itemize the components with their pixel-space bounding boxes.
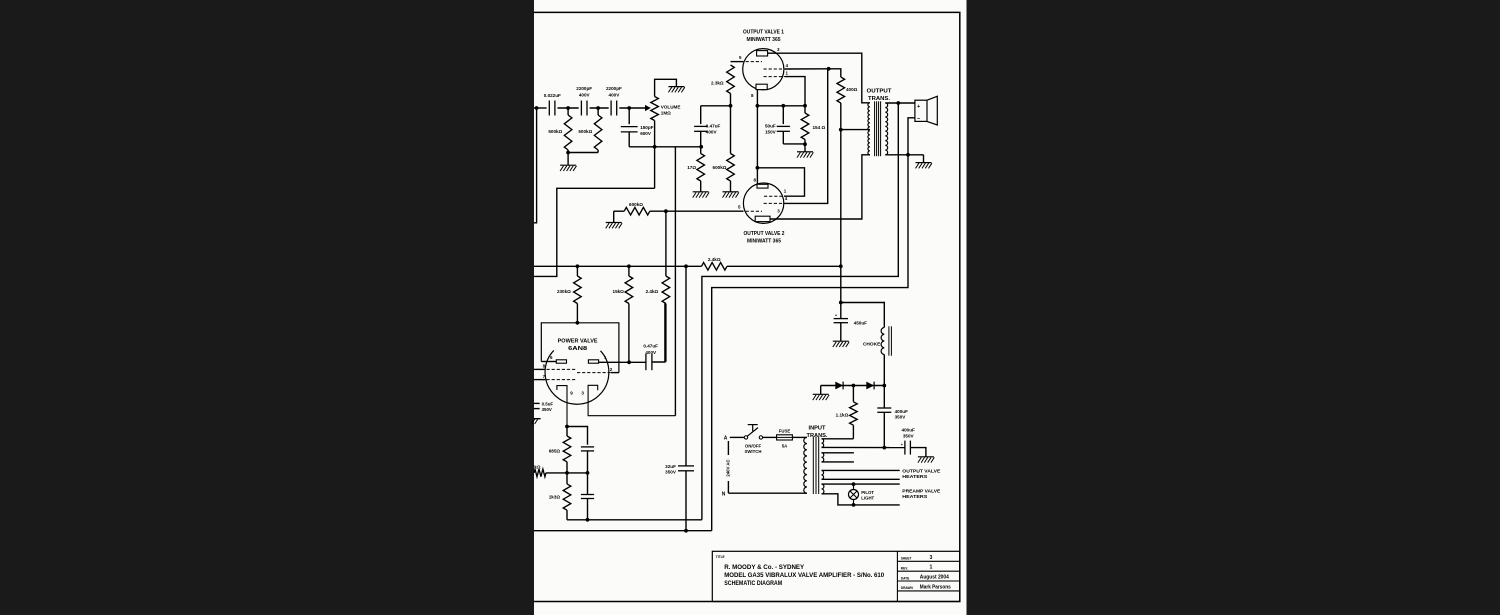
svg-text:INPUT: INPUT [809,425,827,431]
ground speaker return [916,162,932,164]
diode D2 [866,382,874,390]
wire ground drop right of T2 [923,155,925,163]
svg-text:CHOKE: CHOKE [863,341,881,347]
wire V2 pin8 to pin1 loop [757,168,804,196]
bus wire left segment y266 [534,265,702,267]
wire 400uF lower to ground [910,448,926,457]
svg-text:50uF: 50uF [765,124,776,129]
node pilot bottom [852,503,856,507]
tube V1 cathode electrode pin8 [756,84,767,89]
svg-text:150V: 150V [765,130,777,135]
svg-text:2.3kΩ: 2.3kΩ [711,80,724,85]
node bus to B+ vertical [839,264,843,268]
svg-text:400uF: 400uF [895,409,908,414]
wire 50uF bottom to 154 bottom [783,143,805,145]
tube V3 envelope arc [545,350,609,404]
node screen to 400ohm [827,67,831,71]
svg-text:600kΩ: 600kΩ [713,165,727,170]
wire bottom distribution y531 to page edge [534,530,712,532]
svg-text:1k3Ω: 1k3Ω [549,495,561,500]
wire B+ to choke [841,303,885,328]
svg-text:LIGHT: LIGHT [861,495,874,500]
rectifier rail y385 [821,385,885,387]
drawing border frame [534,12,960,601]
node 50uF top [781,104,785,108]
inductor CHOKE winding [881,328,884,355]
tube V3 cathode bracket pin3 [588,385,675,415]
svg-text:6AN8: 6AN8 [568,346,588,352]
svg-text:DRAWN: DRAWN [901,586,914,590]
switch SW1 on/off contacts [744,436,747,439]
svg-text:kΩ: kΩ [534,464,541,469]
resistor 685 Ohm [566,427,568,437]
capacitor 2200pF 400V second [610,101,612,116]
input signal wire from page edge [534,107,547,109]
capacitor 0.5uF 350V cut at edge [534,402,540,404]
wire preamp heater bottom lead [822,494,900,505]
resistor feedback from page edge [534,469,546,477]
wire 600k left to ground [613,211,615,222]
node resistor-bottoms [566,151,570,155]
diode D1 [835,382,843,390]
resistor 500kOhm second [597,108,599,115]
svg-text:ON/OFF: ON/OFF [745,443,762,448]
node bias at 0.47uF top [699,145,703,149]
wire switch to fuse [763,436,777,438]
ground cut at page edge [534,418,541,420]
capacitor cathode bypass lower [587,473,589,495]
node pilot top [852,482,856,486]
tube V3 right electrode pin1 [588,360,598,363]
svg-text:1.1kΩ: 1.1kΩ [836,413,849,418]
svg-text:OUTPUT VALVE 2: OUTPUT VALVE 2 [744,231,785,237]
resistor 17 Ohm [700,147,702,154]
wire V2 pin4 up to V1 screen node [784,69,828,204]
tube V2 bottom plate electrode pin3 [755,216,770,221]
tube V3 left electrode pin6 [556,360,566,363]
transformer T1 HV secondary winding [822,439,824,448]
svg-text:2200pF: 2200pF [576,86,592,91]
svg-text:1: 1 [930,565,933,571]
svg-text:MINIWATT 365: MINIWATT 365 [747,239,782,245]
wire V1 pin1 to 154ohm [785,77,805,106]
tube V3 cathode bracket pin9 [557,386,567,427]
ground under 154ohm [797,151,813,153]
resistor 400 Ohm screen feed [829,69,841,77]
resistor 500kOhm first [567,108,569,115]
wire bias line horizontal y147 [629,146,701,148]
svg-text:230kΩ: 230kΩ [557,289,571,294]
svg-text:1MΩ: 1MΩ [661,111,671,116]
svg-text:350V: 350V [903,433,915,438]
tube V2 grid dash pin5 [746,210,762,212]
transformer T2 primary winding [868,103,870,155]
svg-text:TITLE: TITLE [716,555,725,559]
ground under 500k resistors [560,164,576,166]
tube V1 OUTPUT VALVE 1 MINIWATT 365 envelope [743,49,784,90]
svg-text:August 2004: August 2004 [920,575,949,581]
switch SW1 lever [747,428,758,437]
node 15k bottom [627,360,631,364]
capacitor 0.47uF 400V screen [645,354,647,370]
svg-text:TRANS.: TRANS. [807,433,829,439]
node 2.3k bottom [729,104,733,108]
wire pot bottom west jog [534,188,655,276]
svg-text:500kΩ: 500kΩ [548,129,562,134]
svg-text:FUSE: FUSE [779,429,791,434]
potentiometer VOLUME 1MOhm [651,97,659,121]
wire 0.47uF top to 2.3k bottom [701,105,731,107]
svg-text:2.4kΩ: 2.4kΩ [708,257,721,262]
resistor 2.4kOhm bus dropper [702,263,728,271]
capacitor 400uF 350V upper [883,386,885,409]
ground under 600k [723,191,739,193]
ground rectifier input [813,393,829,395]
wire T2 secondary bottom to ground [885,154,923,156]
svg-text:400V: 400V [579,92,591,97]
node bypass lower bottom [586,518,590,522]
node pot bottom on bias line [653,145,657,149]
transformer T1 preamp heater winding [822,484,824,494]
svg-text:HEATERS: HEATERS [902,474,927,479]
svg-text:15kΩ: 15kΩ [613,289,625,294]
wire feedback line 1 speaker plus to cathode rail [702,103,898,520]
svg-text:HEATERS: HEATERS [902,494,927,499]
svg-text:685Ω: 685Ω [549,449,561,454]
node 230k bottom on box [576,321,580,325]
capacitor 0.47uF 400V coupling [700,106,702,124]
wire cap2 to node2 [590,107,609,109]
wire N to transformer primary bottom [728,492,807,494]
wiper arrowhead [645,105,651,111]
transformer T1 rectifier winding [822,453,824,462]
svg-text:DATE: DATE [901,576,909,580]
node 685 bottom [565,471,569,475]
svg-text:Mark Parsons: Mark Parsons [920,585,951,591]
resistor 600kOhm grid leak V1 [730,106,732,154]
tube V3 grid dash pin2 [577,372,611,374]
node n1 [566,106,570,110]
resistor 1k3 Ohm [566,473,568,484]
capacitor cathode bypass upper [581,446,594,448]
wire preamp heater top lead [822,483,900,485]
svg-text:N: N [722,492,726,498]
svg-text:OUTPUT: OUTPUT [867,88,893,94]
wire input drop to lower-left exit [534,108,537,223]
wire mains A-N lower [727,481,729,493]
capacitor 32uF 350V inline [685,266,687,466]
wire pot bottom down [654,121,656,189]
wire speaker minus lead [908,118,915,155]
node V2 grid junction [664,209,668,213]
wire rectifier winding top lead [822,452,854,454]
schematic page background [534,0,967,615]
svg-text:SHEET: SHEET [901,557,912,561]
svg-text:400V: 400V [609,92,621,97]
wire joining 500k resistor bottoms [568,152,598,154]
ground above volume pot [668,86,684,88]
wire cathode bus y106 [757,105,805,107]
svg-text:350V: 350V [542,407,552,412]
wire output heater top lead [822,469,900,471]
svg-text:2200pF: 2200pF [606,86,622,91]
switch SW1 handle [752,425,754,432]
node V3 pin9 cathode junction [565,425,569,429]
svg-text:154 Ω: 154 Ω [813,125,826,130]
svg-text:MODEL GA35 VIBRALUX VALVE AMPL: MODEL GA35 VIBRALUX VALVE AMPLIFIER - S/… [724,572,884,579]
svg-text:TRANS.: TRANS. [868,96,891,102]
svg-text:0.47uF: 0.47uF [643,344,658,349]
wire cap3 to volume pot wiper [619,107,645,109]
tube V1 grid dash pin1 [764,76,786,78]
node 230k top [576,264,580,268]
resistor 154 Ohm [804,106,806,113]
wire to ground stub [567,153,569,166]
node V2 pin8 tie [756,166,760,170]
fuse F1 5A body [777,435,793,440]
wire to ground under 154 [804,144,806,152]
title block frame [712,551,960,601]
svg-text:600V: 600V [640,131,652,136]
wire V1 pin5 grid stopper [731,61,744,63]
svg-text:0.47uF: 0.47uF [706,124,721,129]
svg-text:400uF: 400uF [902,428,915,433]
svg-text:400V: 400V [706,130,718,135]
node speaker plus feedback tap [896,101,900,105]
capacitor 0.022uF [548,101,550,116]
node 32uF bottom tie [684,529,688,533]
svg-text:17Ω: 17Ω [687,165,696,170]
node bypass upper bottom [586,471,590,475]
wire 0.47uF to 2.4k bottom [652,304,665,363]
wire cathode junction to bypass cap [567,427,588,445]
wire V1 pin4 screen [785,68,829,70]
ground under 450uF [833,340,849,342]
node n3 150pF tap [627,106,631,110]
svg-text:350V: 350V [665,469,677,474]
tube V2 OUTPUT VALVE 2 MINIWATT 365 envelope [743,183,783,223]
wire fuse to input transformer [792,436,807,438]
wire choke to rectifier node [883,355,885,386]
ground under 17ohm [693,191,709,193]
resistor 1.1kOhm [852,386,854,402]
resistor 2.4kOhm vertical [665,211,667,276]
wire mid cathode junction y473 [546,472,588,474]
wire feedback line 2 speaker minus to B+ rail [712,155,908,531]
svg-text:VOLUME: VOLUME [661,104,681,109]
wire A to switch [730,436,745,438]
node B+ filter junction [839,301,843,305]
tube V2 grid dash pin1 [764,195,784,197]
transformer T2 secondary winding [885,103,887,155]
tube V1 plate cap electrode pin3 [757,51,768,56]
svg-text:400V: 400V [645,350,657,355]
tube V1 grid dash pin4 [764,68,786,70]
wire HV secondary top to 1.1k [822,438,854,440]
svg-text:OUTPUT VALVE 1: OUTPUT VALVE 1 [743,30,785,36]
resistor 2.3kOhm [727,65,735,94]
ground under 600k V2 [606,222,622,224]
wire pin2 to box right side [611,372,619,374]
wire bias drop x675 to 6AN8 cathode [674,147,676,416]
svg-text:500kΩ: 500kΩ [578,129,592,134]
node n2 [596,106,600,110]
wire pin1 electrode to 15k node [599,361,646,363]
svg-text:POWER VALVE: POWER VALVE [558,338,598,344]
wire cathode bottom rail y520 [567,519,702,521]
svg-text:A: A [724,436,728,442]
capacitor 400uF 350V lower [904,441,906,455]
wire T2 primary centre tap [841,129,870,131]
wire T2 secondary top to speaker plus [885,102,915,104]
node 154ohm bottom [803,142,807,146]
svg-text:SWITCH: SWITCH [745,449,762,454]
tube V2 top electrode pin8 [757,184,768,188]
choke core [888,326,890,355]
ground under 400uF lower [918,456,934,458]
svg-text:3: 3 [930,555,933,561]
svg-text:R. MOODY & Co. - SYDNEY: R. MOODY & Co. - SYDNEY [724,564,805,571]
svg-text:OUTPUT VALVE: OUTPUT VALVE [902,468,940,473]
resistor 15kOhm [628,266,630,276]
wire V1 plate to output transformer [768,53,870,103]
wire V2 plate to output transformer bottom [770,155,870,219]
svg-text:350V: 350V [895,414,907,419]
tube V1 grid dash pin5 [746,61,762,63]
speaker LS1 horn [927,96,937,125]
tube V3 grid dash pin8 [547,368,578,370]
transformer T1 core [812,437,814,494]
transformer T1 output heater winding [822,470,824,479]
node 15k top [627,264,631,268]
wire rectifier left to ground [820,386,822,395]
capacitor 2200pF 400V first [580,101,582,116]
resistor 600kOhm grid leak V2 horizontal [614,210,625,212]
capacitor 50uF 150V [782,106,784,124]
node V1 cathode [756,104,760,108]
svg-text:150pF: 150pF [640,125,653,130]
wire box to pin6 electrode [541,361,556,363]
resistor 230kOhm [576,266,578,276]
wire V1 cathode down to V2 pin8 [756,90,758,185]
svg-text:240V AC: 240V AC [726,459,731,476]
svg-text:PREAMP VALVE: PREAMP VALVE [902,489,940,494]
node input junction [535,106,539,110]
wire HV secondary bottom to 400uF [822,446,905,448]
wire pot top to ground [655,79,677,96]
tube V2 grid dash pin4 [764,202,784,204]
wire rectifier winding bottom lead [822,461,854,463]
tube V3 grid dash pin7 [547,379,578,381]
node rectifier output [882,384,886,388]
node 32uF drop [684,264,688,268]
capacitor 450uF reservoir [840,303,842,319]
wire V3 pin7 from page edge [534,379,545,381]
svg-text:SCHEMATIC DIAGRAM: SCHEMATIC DIAGRAM [724,580,782,587]
wire cap1 to node1 [558,107,579,109]
svg-text:400Ω: 400Ω [846,87,858,92]
tube V3 POWER VALVE 6AN8 box [541,323,619,373]
svg-text:MINIWATT 365: MINIWATT 365 [747,37,782,43]
bus wire right segment y266 [727,265,841,267]
svg-text:32uF: 32uF [665,464,676,469]
svg-text:5A: 5A [782,443,788,448]
node centre tap [839,128,843,132]
svg-text:2.4kΩ: 2.4kΩ [646,289,659,294]
wire V2 grid to pin5 [666,210,744,212]
svg-text:450uF: 450uF [854,320,867,325]
svg-text:600kΩ: 600kΩ [629,202,643,207]
node speaker minus tie [906,153,910,157]
transformer T1 primary winding [804,437,807,493]
node HV winding to caps [882,446,886,450]
node 154ohm top [803,104,807,108]
svg-text:0.022uF: 0.022uF [544,93,561,98]
capacitor 150pF 600V [628,108,630,124]
wire mains A-N upper [727,441,729,455]
svg-text:REV.: REV. [901,567,908,571]
node doubler mid [852,384,856,388]
svg-text:PILOT: PILOT [861,490,874,495]
lamp PILOT LIGHT [853,484,855,489]
transformer T2 core [874,101,876,156]
wire output heater bottom lead [822,478,900,480]
wire V3 pin8 from page edge [534,368,545,370]
speaker LS1 body [915,100,927,121]
